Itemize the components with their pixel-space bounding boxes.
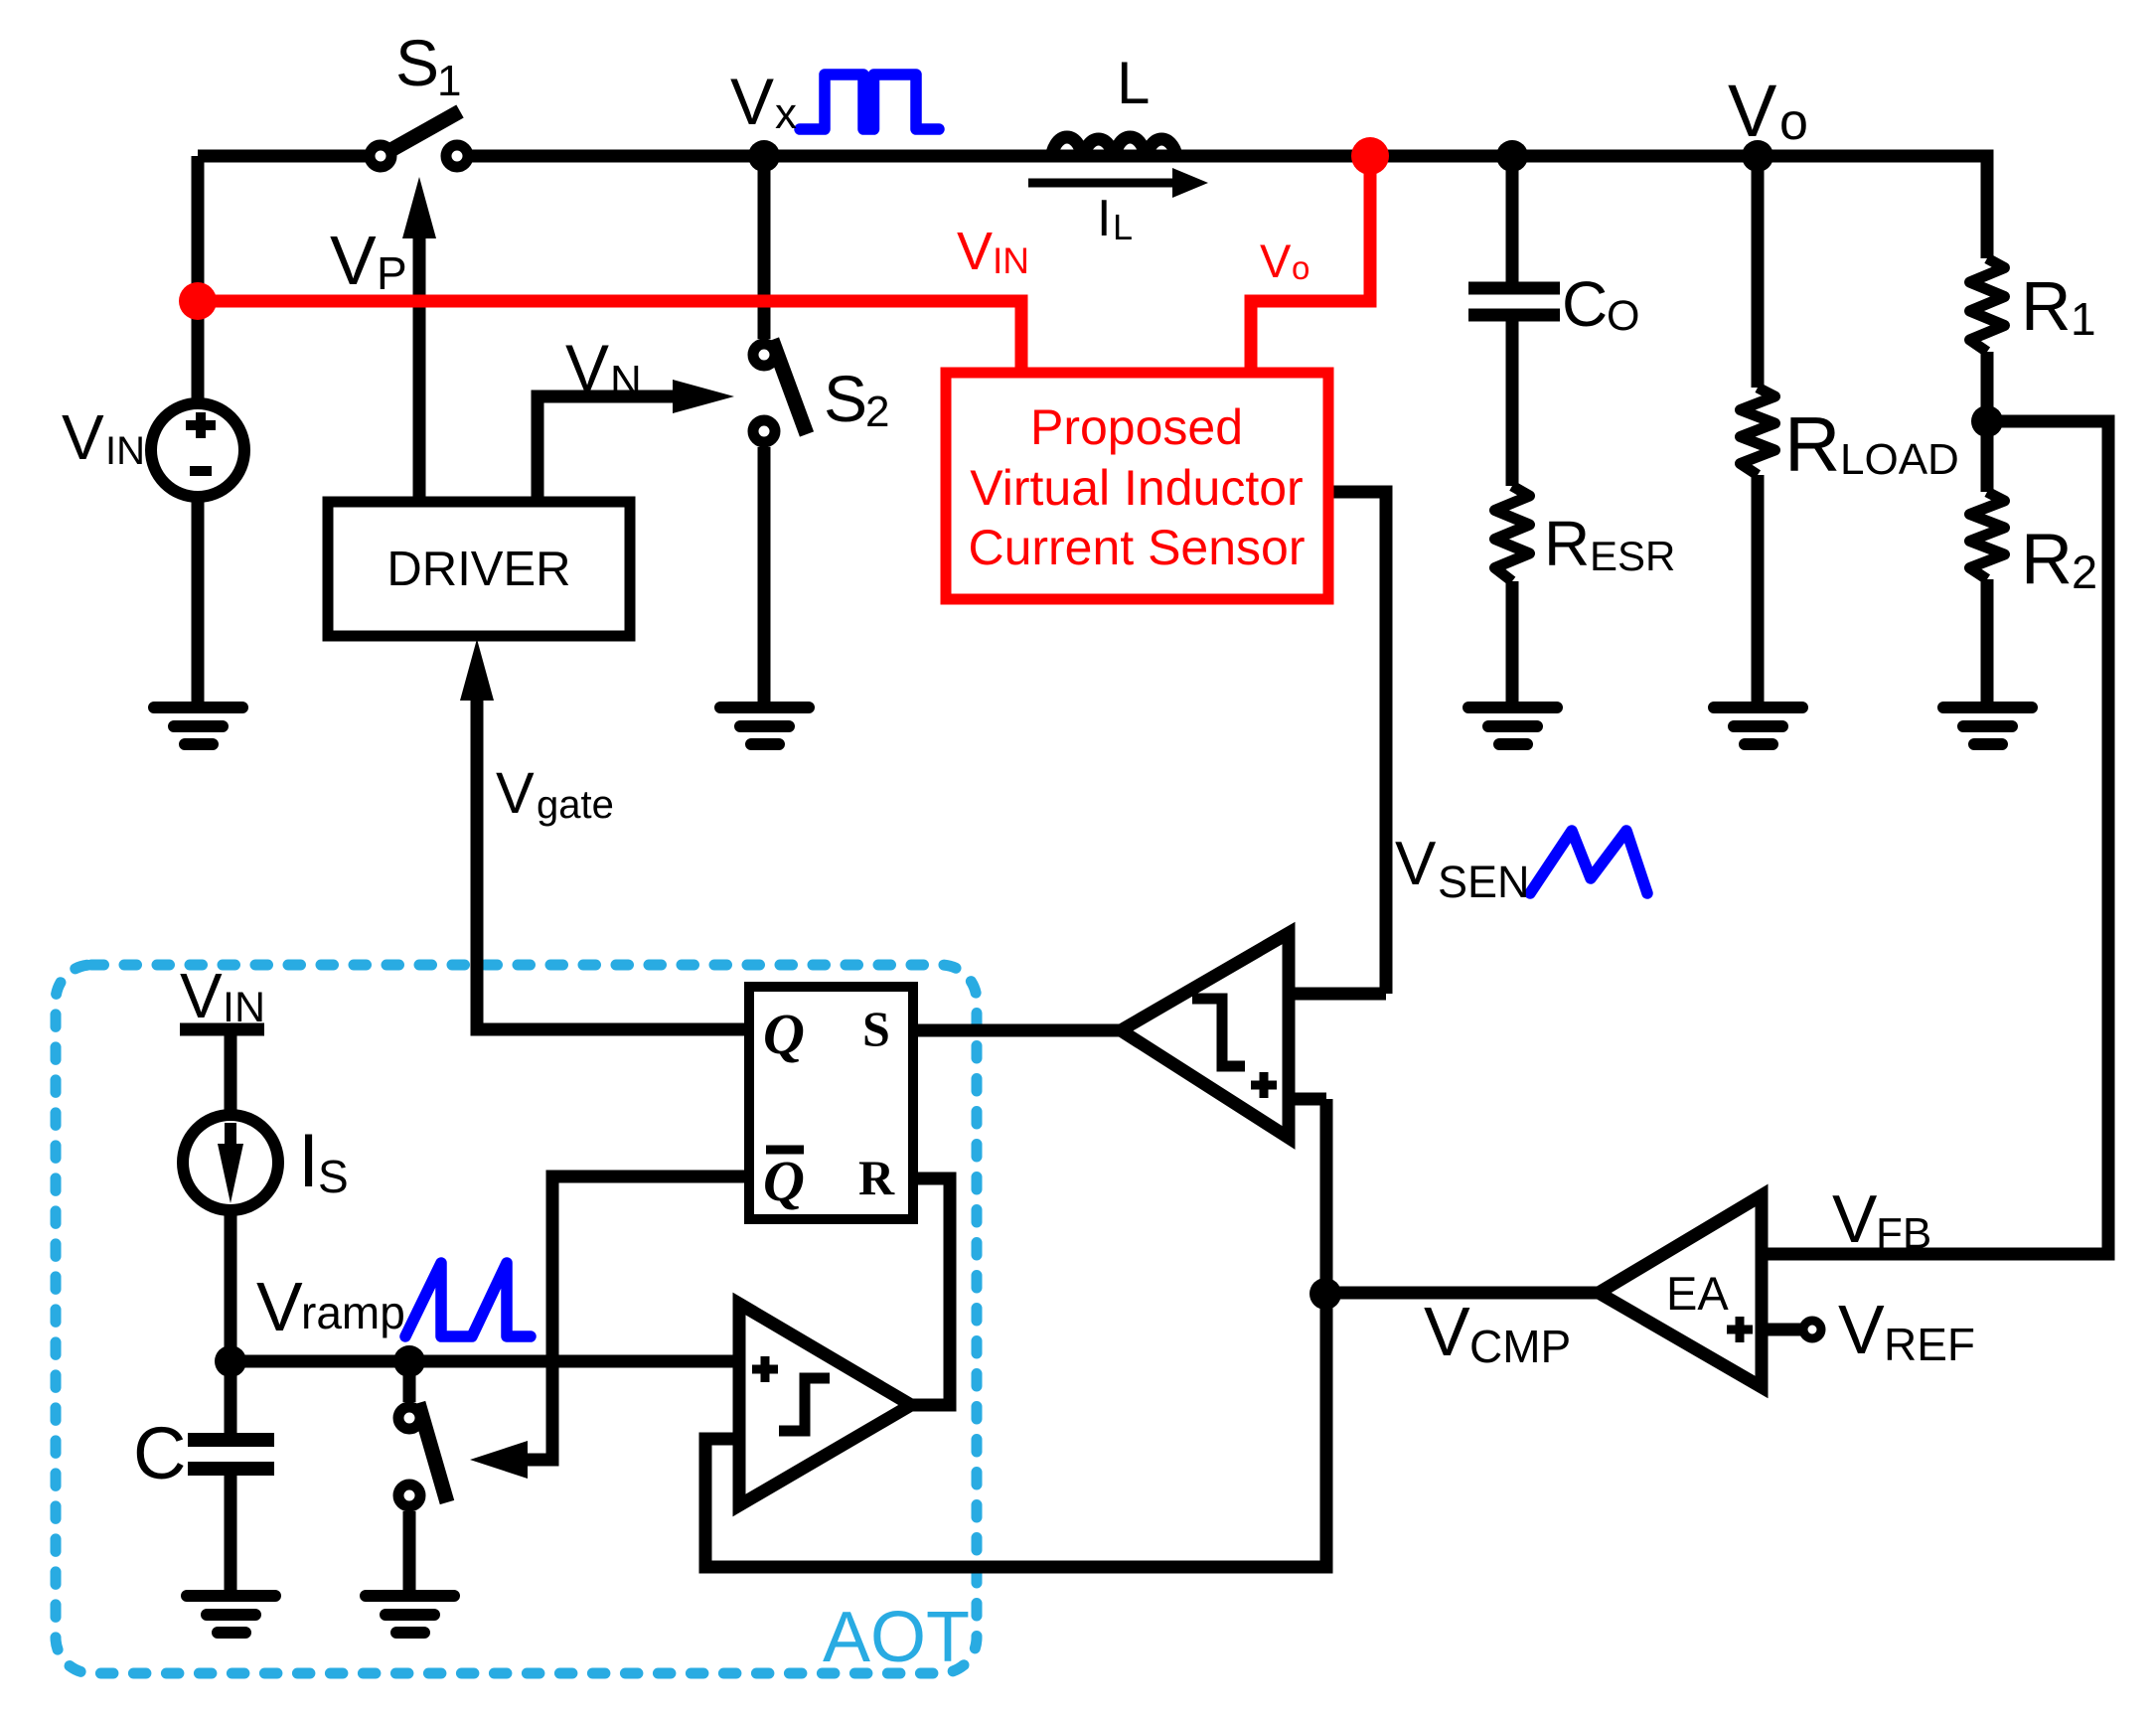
svg-text:I: I bbox=[1097, 190, 1111, 247]
label IL bbox=[1097, 190, 1133, 247]
arrowhead VP bbox=[402, 177, 436, 238]
wire EA plus input stub bbox=[1762, 1324, 1806, 1336]
wire Resr to ground bbox=[1506, 581, 1519, 705]
label Vo output bbox=[1728, 70, 1808, 152]
arrow IL inductor current bbox=[1028, 168, 1208, 198]
label VIN red bbox=[957, 222, 1029, 281]
svg-text:FB: FB bbox=[1876, 1209, 1931, 1258]
svg-text:2: 2 bbox=[865, 388, 889, 436]
svg-text:I: I bbox=[298, 1119, 319, 1203]
ground under R2 bbox=[1943, 707, 2032, 744]
label Resr bbox=[1544, 508, 1675, 579]
svg-text:V: V bbox=[1832, 1181, 1878, 1257]
svg-text:x: x bbox=[775, 89, 797, 138]
label VREF bbox=[1838, 1291, 1975, 1370]
resistor R2 bbox=[1970, 492, 2005, 579]
svg-text:V: V bbox=[565, 331, 609, 404]
switch S1 bbox=[370, 111, 468, 167]
svg-text:V: V bbox=[496, 761, 535, 826]
voltage source VIN bbox=[151, 403, 244, 497]
capacitor C bbox=[188, 1440, 274, 1469]
GROUNDS bbox=[154, 707, 2032, 1633]
label VCMP bbox=[1424, 1293, 1571, 1372]
svg-text:Current Sensor: Current Sensor bbox=[968, 520, 1305, 575]
wire left input rail vertical upper bbox=[192, 156, 205, 403]
label VIN AOT bbox=[180, 960, 265, 1031]
svg-text:S: S bbox=[824, 362, 867, 435]
resistor R1 bbox=[1970, 258, 2005, 352]
wire Vramp node down to capacitor C bbox=[225, 1361, 237, 1434]
waveform Vx square wave bbox=[800, 75, 939, 129]
red node at VIN rail bbox=[179, 282, 217, 320]
svg-text:V: V bbox=[62, 401, 104, 473]
svg-text:R: R bbox=[1544, 508, 1590, 579]
svg-text:C: C bbox=[1562, 268, 1608, 340]
ground under S2 bbox=[720, 707, 809, 744]
node R1-R2 divider bbox=[1971, 405, 2003, 437]
error amplifier EA bbox=[1599, 1195, 1821, 1387]
AOT ramp switch bbox=[398, 1403, 447, 1506]
wire R1 to R2 through divider node bbox=[1981, 352, 1994, 492]
wire top rail middle segment Vx to inductor bbox=[457, 150, 1053, 163]
label VIN source bbox=[62, 401, 145, 473]
resistor Rload bbox=[1741, 388, 1775, 475]
svg-text:S: S bbox=[862, 1001, 890, 1056]
wire latch S input from comparator output bbox=[913, 1024, 1121, 1037]
wire capacitor C to ground bbox=[225, 1475, 237, 1592]
red wire Vo sense bbox=[1251, 162, 1370, 368]
node Co branch bbox=[1496, 140, 1528, 172]
svg-text:V: V bbox=[730, 65, 774, 138]
label Rload bbox=[1784, 400, 1959, 488]
node Vo bbox=[1742, 140, 1773, 172]
waveform Vramp sawtooth bbox=[405, 1263, 531, 1336]
ground under capacitor C bbox=[187, 1596, 275, 1633]
svg-text:IN: IN bbox=[993, 240, 1029, 281]
wire latch R input from AOT comparator output bbox=[911, 1178, 950, 1405]
REDNET bbox=[198, 162, 1370, 368]
label Vramp bbox=[256, 1268, 405, 1345]
label VFB bbox=[1832, 1181, 1931, 1258]
svg-text:REF: REF bbox=[1884, 1319, 1975, 1370]
wire Rload to ground bbox=[1752, 475, 1765, 705]
svg-text:N: N bbox=[610, 357, 642, 405]
arrowhead switch control bbox=[470, 1441, 528, 1479]
current source Is bbox=[183, 1115, 278, 1210]
red wire VIN sense bbox=[198, 301, 1021, 368]
label R2 bbox=[2021, 520, 2097, 599]
svg-text:V: V bbox=[256, 1268, 303, 1345]
svg-text:ESR: ESR bbox=[1590, 533, 1675, 579]
ground under AOT switch bbox=[366, 1596, 454, 1633]
label S1 bbox=[395, 26, 461, 105]
svg-text:AOT: AOT bbox=[823, 1598, 970, 1677]
svg-text:R: R bbox=[2021, 520, 2073, 599]
box DRIVER bbox=[328, 502, 630, 636]
svg-text:V: V bbox=[180, 960, 223, 1031]
wire Is source to Vramp rail bbox=[225, 1211, 237, 1361]
svg-text:Q: Q bbox=[763, 1149, 805, 1213]
svg-text:R: R bbox=[1784, 400, 1840, 488]
wire Vx node vertical down to S2 bbox=[758, 156, 771, 339]
red node at Vo rail bbox=[1351, 137, 1389, 175]
AOT dashed boundary box bbox=[56, 965, 977, 1673]
svg-text:S: S bbox=[318, 1151, 349, 1202]
label VSEN bbox=[1395, 830, 1530, 907]
ground under Resr bbox=[1468, 707, 1557, 744]
wire EA minus input VFB feedback from R1-R2 divider bbox=[1724, 421, 2108, 1254]
label Vx bbox=[730, 65, 797, 138]
wire R2 to ground bbox=[1981, 579, 1994, 705]
node Vramp switch bbox=[393, 1345, 425, 1377]
BLUEWAVES bbox=[405, 75, 1647, 1336]
ground under Rload bbox=[1714, 707, 1802, 744]
wire Vramp node to switch top contact bbox=[403, 1361, 416, 1402]
AOT comparator (Vramp vs VCMP) bbox=[739, 1304, 911, 1505]
svg-text:CMP: CMP bbox=[1469, 1321, 1571, 1372]
label R1 bbox=[2021, 267, 2096, 345]
wire VP gate drive line bbox=[413, 238, 426, 502]
label S2 bbox=[824, 362, 889, 436]
box Proposed Virtual Inductor Current Sensor bbox=[946, 373, 1328, 599]
wire S2 bottom to ground bbox=[758, 447, 771, 705]
wire Co branch upper bbox=[1506, 156, 1519, 282]
svg-text:o: o bbox=[1779, 93, 1808, 151]
node Vramp left bbox=[215, 1345, 246, 1377]
comparator (hysteretic, VSEN vs VCMP) bbox=[1121, 933, 1289, 1138]
label Co bbox=[1562, 268, 1639, 340]
wire switch bottom contact to ground bbox=[403, 1511, 416, 1592]
wire Vramp rail bbox=[231, 1355, 739, 1368]
label VN bbox=[565, 331, 642, 405]
wire latch Qbar to switch control arrow bbox=[528, 1176, 749, 1460]
wire VCMP vertical and bottom feedback to AOT comparator minus bbox=[705, 1099, 1326, 1567]
BLACKWIRES bbox=[198, 156, 2108, 1592]
svg-text:o: o bbox=[1292, 249, 1309, 286]
label Vo red bbox=[1260, 235, 1309, 287]
svg-text:1: 1 bbox=[437, 57, 461, 105]
svg-text:V: V bbox=[1260, 235, 1292, 287]
svg-text:IN: IN bbox=[223, 984, 265, 1031]
svg-text:Proposed: Proposed bbox=[1030, 399, 1243, 455]
svg-text:IN: IN bbox=[105, 429, 145, 473]
wire left input rail vertical lower to ground bbox=[192, 497, 205, 705]
wire comparator plus input from VCMP bbox=[1254, 1093, 1326, 1106]
svg-text:EA: EA bbox=[1666, 1267, 1729, 1320]
svg-text:V: V bbox=[330, 222, 377, 299]
label Is bbox=[298, 1119, 349, 1203]
capacitor Co bbox=[1468, 288, 1560, 315]
arrowhead Vgate bbox=[460, 639, 494, 701]
SR latch box bbox=[749, 987, 913, 1219]
svg-text:ramp: ramp bbox=[301, 1287, 405, 1338]
node Vx bbox=[748, 140, 780, 172]
resistor Resr bbox=[1495, 486, 1530, 581]
wire VIN bar to Is source bbox=[225, 1035, 237, 1115]
waveform VSEN triangle bbox=[1530, 831, 1647, 893]
wire EA output VCMP bbox=[1325, 1287, 1599, 1300]
wire latch Q output to DRIVER Vgate bbox=[477, 701, 749, 1029]
wire under inductor bbox=[1053, 150, 1177, 163]
svg-text:2: 2 bbox=[2072, 546, 2097, 598]
wire VSEN from sensor output bbox=[1328, 492, 1386, 994]
svg-text:O: O bbox=[1607, 292, 1639, 340]
svg-text:L: L bbox=[1113, 207, 1133, 247]
wire top rail left segment bbox=[198, 150, 381, 163]
svg-text:SEN: SEN bbox=[1438, 857, 1530, 907]
svg-text:LOAD: LOAD bbox=[1840, 435, 1959, 484]
svg-text:DRIVER: DRIVER bbox=[386, 543, 570, 596]
wire comparator minus input from VSEN bbox=[1247, 988, 1386, 1001]
svg-text:S: S bbox=[395, 26, 439, 99]
ground under VIN source bbox=[154, 707, 242, 744]
svg-text:V: V bbox=[1728, 70, 1777, 152]
svg-text:V: V bbox=[1395, 830, 1437, 898]
label Vgate bbox=[496, 761, 614, 827]
wire Rload branch upper bbox=[1752, 156, 1765, 388]
svg-text:Virtual Inductor: Virtual Inductor bbox=[970, 460, 1303, 516]
svg-text:V: V bbox=[957, 222, 993, 281]
wire VN gate drive line bbox=[538, 396, 673, 502]
svg-text:gate: gate bbox=[537, 783, 614, 827]
wire Co to Resr bbox=[1506, 321, 1519, 486]
svg-text:C: C bbox=[133, 1412, 186, 1494]
svg-text:V: V bbox=[1838, 1291, 1885, 1368]
svg-text:Q: Q bbox=[763, 1002, 805, 1066]
svg-text:R: R bbox=[858, 1150, 895, 1205]
inductor L bbox=[1051, 137, 1177, 162]
svg-text:L: L bbox=[1117, 50, 1150, 116]
svg-text:P: P bbox=[377, 247, 407, 299]
wire top rail right segment to R1 branch bbox=[1177, 156, 1987, 258]
node VCMP bbox=[1309, 1278, 1341, 1310]
label VP bbox=[330, 222, 407, 299]
svg-text:1: 1 bbox=[2071, 293, 2096, 345]
svg-text:V: V bbox=[1424, 1293, 1470, 1370]
switch S2 bbox=[753, 340, 807, 442]
VIN supply bar in AOT bbox=[180, 1023, 264, 1036]
svg-text:R: R bbox=[2021, 267, 2072, 345]
arrowhead VN bbox=[673, 380, 734, 413]
